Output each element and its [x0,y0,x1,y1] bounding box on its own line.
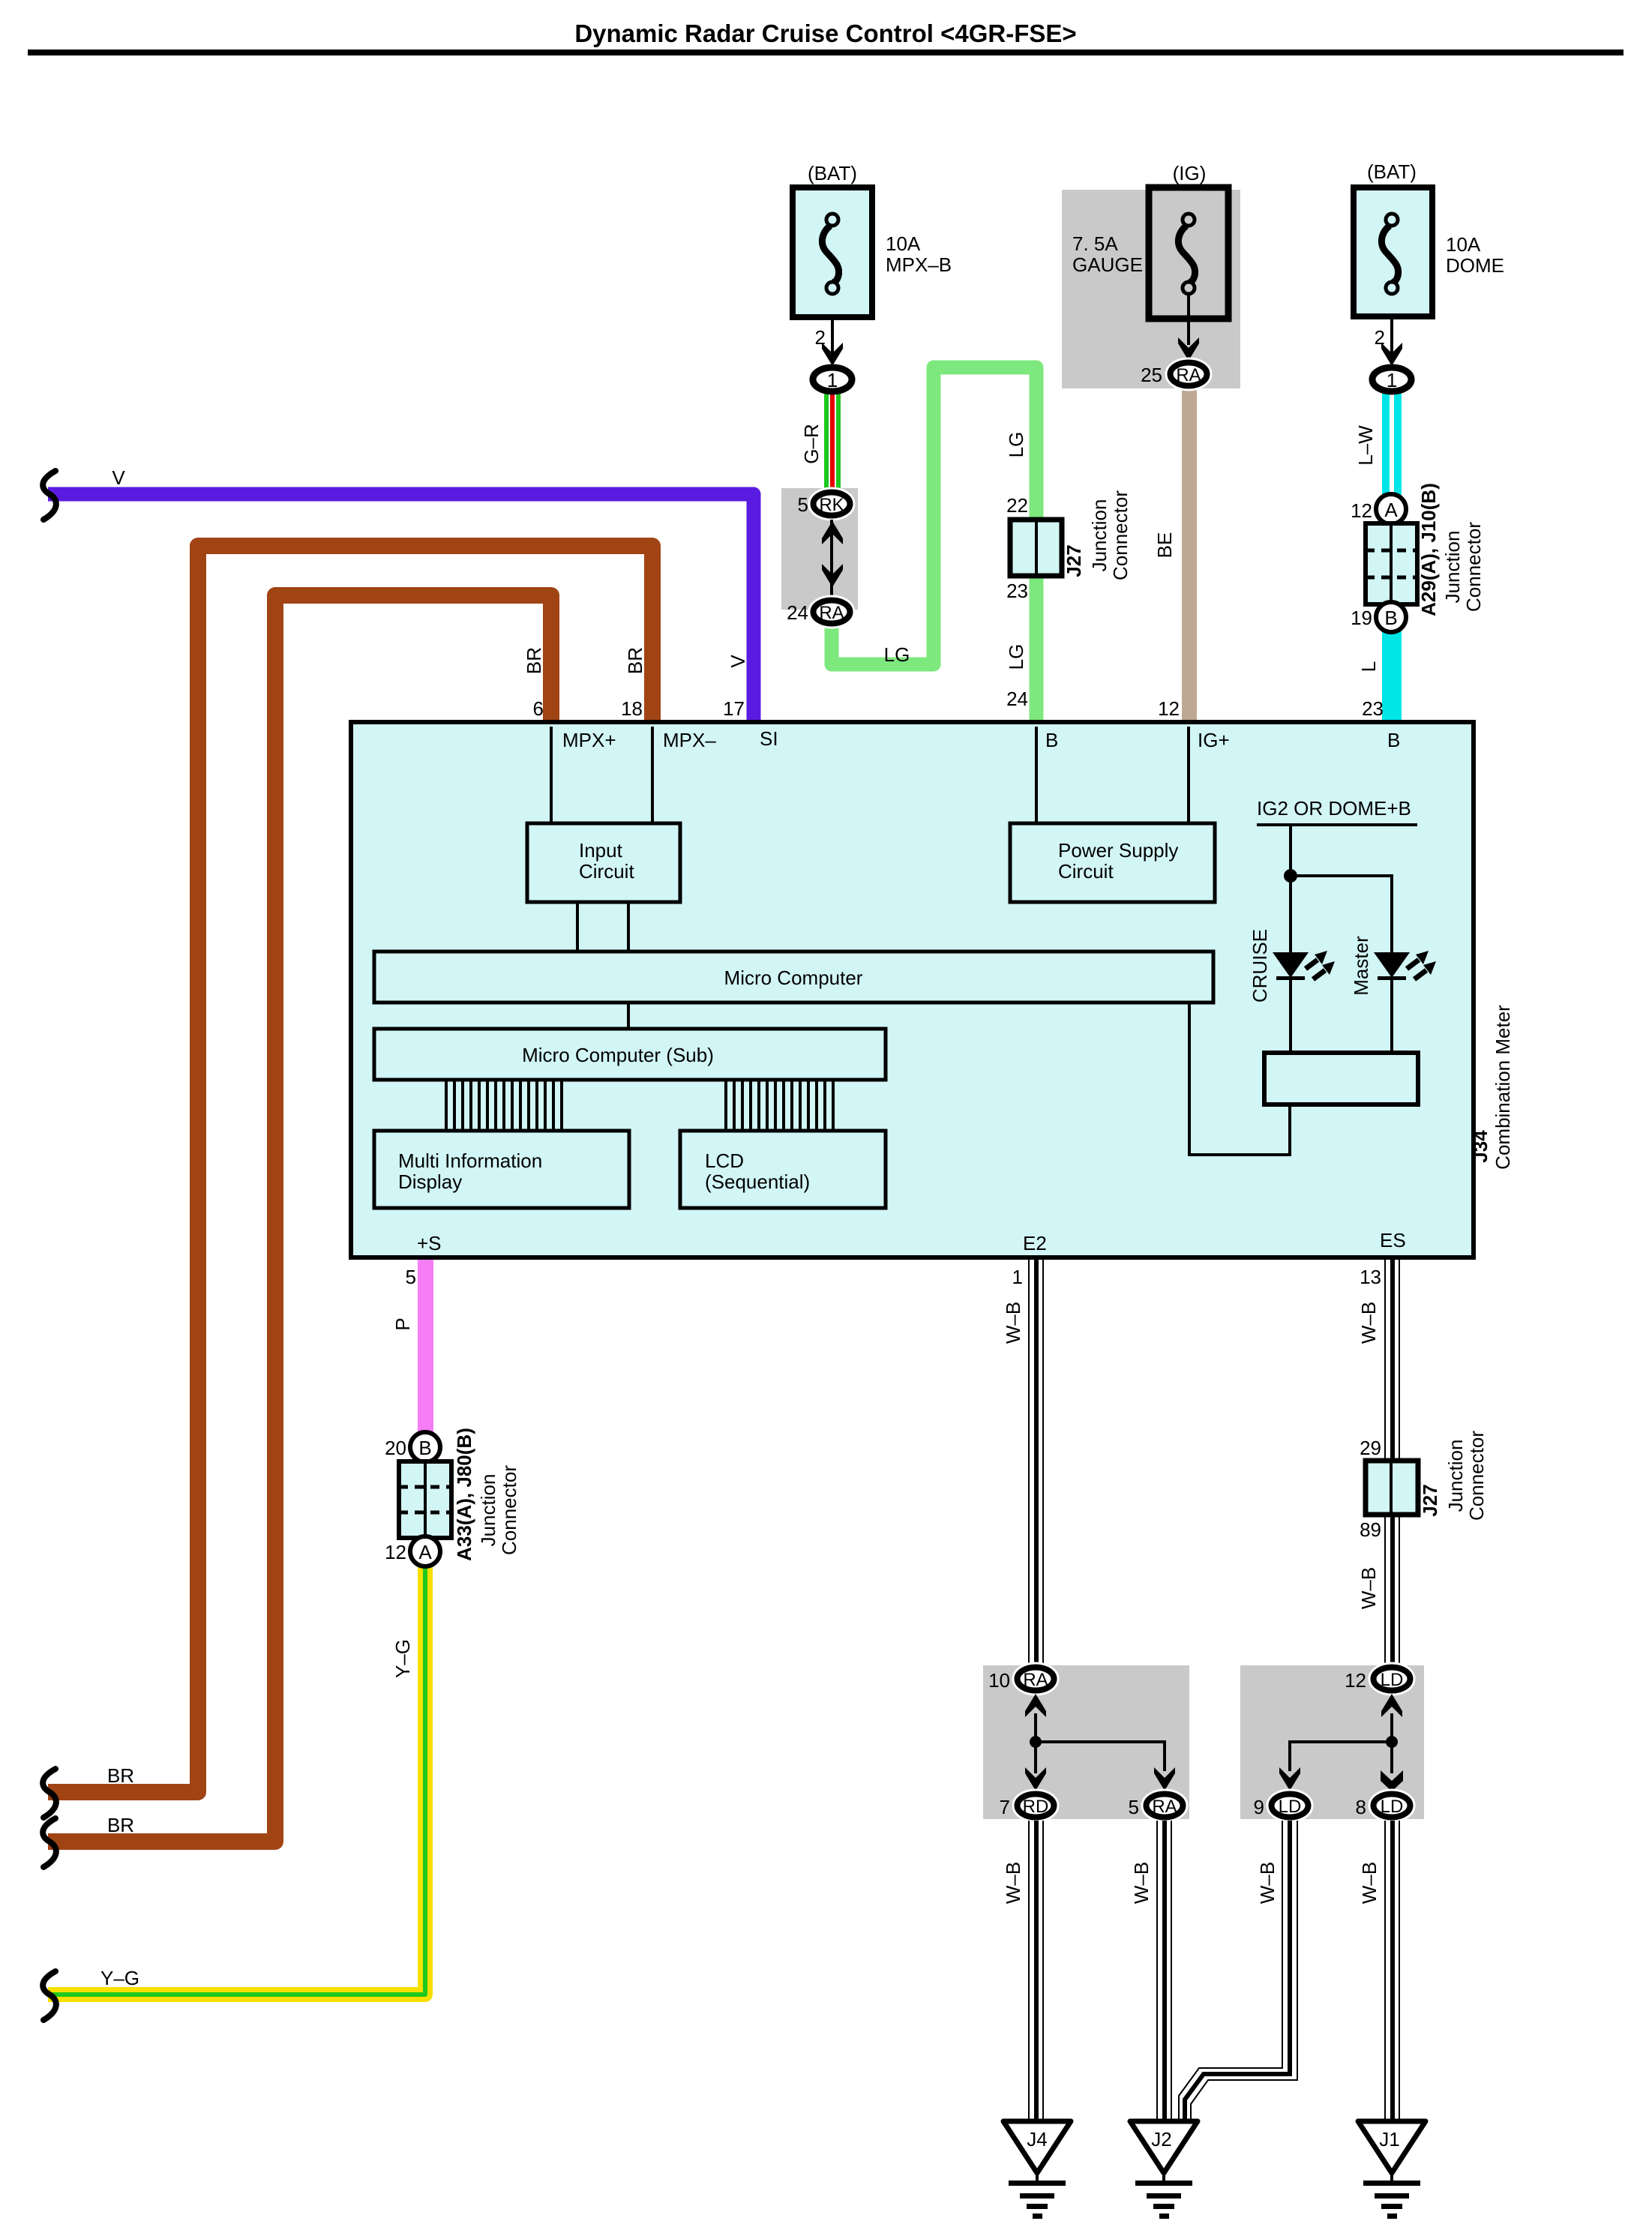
junction dot (right gray box) [1386,1736,1398,1748]
label LG (horizontal near bottom elbow) [884,643,910,666]
svg-text:8: 8 [1356,1796,1366,1818]
svg-text:18: 18 [621,697,643,720]
svg-text:5: 5 [798,493,808,516]
node IG2 OR DOME+B [1257,797,1417,826]
wire L-W (cyan with white stripe) fuse DOME to 12 A [1382,393,1402,498]
label W-B (rotated, LD9 wire) [1256,1862,1279,1904]
svg-text:SI: SI [760,727,778,750]
svg-text:29: 29 [1360,1437,1381,1459]
indicator block rectangle [1264,1053,1418,1105]
pin number 5 (RK) [798,493,808,516]
svg-text:Junction: Junction [1444,1440,1467,1512]
svg-text:10A: 10A [886,232,921,255]
svg-text:BR: BR [107,1764,134,1787]
svg-text:24: 24 [787,601,808,624]
svg-text:13: 13 [1360,1266,1381,1288]
fuse GAUGE element [1178,214,1195,294]
label W-B (rotated, ES wire upper) [1357,1302,1380,1344]
svg-text:W–B: W–B [1357,1302,1380,1344]
label LG (rotated, above J27) [1005,432,1027,458]
pin number 7 (RD) [1000,1796,1010,1818]
label W-B (rotated, J2 wire) [1130,1862,1153,1904]
wire fuse MPX-B to connector 1 [831,317,834,356]
wire BR outer (brown) break to meter pin 18 MPX- [48,546,652,1792]
pin name B (23) [1387,729,1400,751]
svg-text:BE: BE [1153,532,1176,559]
pin number 12 (LD) [1345,1669,1366,1692]
svg-text:MPX–B: MPX–B [886,253,952,276]
relay block shading (bottom right, 12LD/9LD/8LD) [1240,1665,1424,1819]
label W-B (rotated, J4 wire) [1002,1862,1024,1904]
arrow up into LD (12) [1381,1694,1402,1717]
power supply circuit box [1010,823,1215,902]
label BR (rotated, pin 18) [624,647,646,674]
label 13 (pin ES) [1360,1266,1381,1288]
svg-text:Circuit: Circuit [1058,860,1114,883]
svg-text:(Sequential): (Sequential) [705,1170,810,1193]
svg-text:Y–G: Y–G [391,1639,414,1678]
svg-text:(BAT): (BAT) [808,162,857,184]
svg-text:1: 1 [1012,1266,1023,1288]
svg-text:Combination Meter: Combination Meter [1492,1005,1514,1170]
svg-text:6: 6 [533,697,544,720]
relay block shading (bottom left, 10RA/7RD/5RA) [983,1665,1189,1819]
svg-text:7: 7 [1000,1796,1010,1818]
wire LG (light green) 24 RA loop to J27 to meter pin 24 B [832,367,1036,722]
arrow into connector RA (GAUGE) [1178,337,1199,361]
wire fuse GAUGE to connector RA [1187,292,1190,345]
svg-text:20: 20 [385,1437,406,1459]
svg-text:B: B [1384,607,1397,629]
svg-text:Connector: Connector [1109,490,1132,580]
arrow down into RD (7) [1025,1767,1046,1791]
wire IG2 bus down to CRUISE LED [1289,826,1292,952]
svg-text:W–B: W–B [1002,1862,1024,1904]
svg-text:RA: RA [819,603,844,623]
label 7.5A GAUGE [1072,232,1143,276]
micro computer (sub) bar [374,1029,886,1080]
LCD (sequential) box [680,1131,886,1208]
label L (rotated) [1357,661,1380,672]
junction connector A29(A) J10(B) circle B [1376,602,1406,632]
wire W-B meter pin 13 ES down through J27 to 12 LD [1384,1257,1400,1666]
svg-text:L: L [1357,661,1380,672]
fuse DOME element [1381,214,1398,294]
svg-text:W–B: W–B [1256,1862,1279,1904]
svg-text:Display: Display [398,1170,462,1193]
wire W-B meter pin 1 E2 down to 10 RA [1028,1257,1044,1666]
label Master (rotated) [1350,936,1372,996]
label A33(A), J80(B) Junction Connector (rotated) [453,1428,520,1561]
svg-text:12: 12 [1345,1669,1366,1692]
arrow down into LD (8) [1381,1770,1403,1791]
label BE (rotated) [1153,532,1176,559]
svg-text:DOME: DOME [1446,254,1504,277]
wire micro computer to indicator block [1189,1003,1290,1155]
junction connector A33(A) J80(B) circle B [410,1432,440,1462]
label (IG) above fuse GAUGE [1173,162,1207,184]
pin number 17 [723,697,745,720]
svg-text:Junction: Junction [477,1474,499,1547]
svg-text:RA: RA [1023,1670,1048,1690]
pin number 5 (+S) [406,1266,416,1288]
ribbon lines sub to multi information display [446,1080,562,1131]
svg-text:Connector: Connector [498,1465,520,1555]
label W-B (rotated, J1 wire) [1358,1862,1381,1904]
fuse MPX-B box [793,187,872,317]
pin name MPX+ [562,729,616,751]
svg-text:J27: J27 [1063,544,1085,577]
svg-text:Circuit: Circuit [579,860,634,883]
svg-text:(BAT): (BAT) [1367,160,1417,183]
svg-text:12: 12 [385,1541,406,1563]
connector circle 1 (DOME) [1372,367,1411,391]
svg-text:12: 12 [1351,499,1372,522]
svg-text:Connector: Connector [1465,1431,1488,1521]
svg-text:B: B [418,1437,431,1459]
label A29(A), J10(B) Junction Connector (rotated) [1417,483,1485,616]
double arrow RK to RA [822,520,843,596]
svg-text:W–B: W–B [1357,1567,1380,1609]
connector circle LD (8) [1374,1794,1411,1818]
pin name MPX- [663,729,716,751]
svg-text:(IG): (IG) [1173,162,1207,184]
wire BE (beige) 25 RA to meter pin 12 IG+ [1182,385,1197,722]
svg-text:P: P [391,1317,414,1330]
pin number 24 (RA) [787,601,808,624]
title [28,19,1624,55]
pin number 12 (A29 circle A) [1351,499,1372,522]
arrow down into LD (9) [1279,1767,1300,1791]
LED CRUISE [1273,951,1335,980]
label 23 (below J27) [1006,580,1028,602]
svg-text:5: 5 [406,1266,416,1288]
relay block shading (GAUGE fuse block) [1062,190,1240,388]
svg-text:V: V [112,466,125,489]
pin number 19 (A29 circle B) [1351,607,1372,629]
svg-text:23: 23 [1362,697,1384,720]
svg-text:LD: LD [1279,1797,1302,1817]
svg-text:Micro Computer: Micro Computer [724,967,863,989]
label 89 (below lower J27) [1360,1518,1381,1541]
label Y-G (horizontal at break) [100,1967,139,1989]
svg-text:RA: RA [1176,365,1201,385]
pin number 2 (fuse DOME) [1375,326,1385,349]
connector circle RA (25) [1171,363,1207,386]
pin name E2 [1023,1232,1047,1254]
stub wire pin 24 to power supply [1035,727,1038,823]
wire LD12 to junction dot and branches [1290,1713,1393,1773]
label Y-G (rotated) [391,1639,414,1678]
label 29 (above lower J27) [1360,1437,1381,1459]
label W-B (rotated, ES wire lower) [1357,1567,1380,1609]
multi information display box [374,1131,629,1208]
svg-text:A33(A), J80(B): A33(A), J80(B) [453,1428,475,1561]
label 22 (above J27) [1006,494,1028,517]
svg-text:BR: BR [624,647,646,674]
pin number 25 (GAUGE) [1141,364,1162,386]
svg-text:J1: J1 [1379,2128,1399,2151]
svg-text:B: B [1387,729,1400,751]
wires input circuit to micro computer [576,902,630,952]
svg-text:24: 24 [1006,688,1028,710]
wire BR inner (brown) break to meter pin 6 MPX+ [48,595,551,1842]
svg-text:25: 25 [1141,364,1162,386]
connector circle RD (7) [1018,1794,1054,1818]
svg-text:J2: J2 [1151,2128,1171,2151]
pin number 10 (RA) [988,1669,1010,1692]
break symbol on wire V [43,471,56,520]
svg-text:Multi Information: Multi Information [398,1149,542,1172]
svg-text:A29(A), J10(B): A29(A), J10(B) [1417,483,1440,616]
svg-text:RK: RK [819,495,844,515]
combination meter J34 outer box [351,722,1474,1257]
svg-text:Junction: Junction [1088,499,1111,572]
connector circle RA (10) [1018,1668,1054,1691]
wire fuse DOME to connector 1 [1390,316,1393,355]
wire W-B LD (8) to ground J1 [1384,1821,1400,2121]
pin number 5 (RA) [1129,1796,1139,1818]
pin name B (24) [1045,729,1058,751]
LED Master [1374,951,1436,980]
relay block shading (RK/RA connector block) [781,488,858,610]
svg-text:9: 9 [1254,1796,1264,1818]
label L-W (rotated) [1354,425,1377,466]
svg-text:L–W: L–W [1354,425,1377,466]
svg-text:RD: RD [1023,1797,1049,1817]
ground J2 [1130,2121,1198,2219]
arrow into connector 1 (DOME) [1381,343,1402,366]
connector circle LD (12) [1374,1668,1411,1691]
svg-text:BR: BR [523,647,545,674]
junction connector A29(A) J10(B) circle A [1376,494,1406,524]
svg-text:LG: LG [884,643,910,666]
label V (horizontal, at wire start) [112,466,125,489]
svg-text:LD: LD [1381,1797,1404,1817]
junction dot [1284,869,1297,883]
wire W-B RA (5) to ground J2 [1156,1821,1172,2121]
label CRUISE (rotated) [1249,929,1271,1003]
junction connector J27 (upper, LG wire) [1010,520,1062,576]
pin number 2 (fuse MPX-B) [815,326,826,349]
svg-text:12: 12 [1158,697,1180,720]
label BR (rotated, pin 6) [523,647,545,674]
junction connector A33(A) J80(B) box [399,1461,451,1538]
wire branch to Master LED [1291,876,1392,952]
label BR (horizontal, outer) [107,1764,134,1787]
svg-text:LCD: LCD [705,1149,744,1172]
pin number 12 [1158,697,1180,720]
svg-text:V: V [727,655,749,668]
svg-text:CRUISE: CRUISE [1249,929,1271,1003]
svg-text:Connector: Connector [1462,522,1485,612]
label J34 (rotated) [1469,1130,1492,1163]
svg-text:5: 5 [1129,1796,1139,1818]
break symbol on Y-G [43,1971,56,2020]
svg-text:RA: RA [1152,1797,1177,1817]
label BR (horizontal, inner) [107,1814,134,1836]
svg-text:J27: J27 [1419,1484,1441,1516]
ground J1 [1358,2121,1426,2219]
svg-text:IG+: IG+ [1198,729,1230,751]
svg-text:LG: LG [1005,432,1027,458]
pin name SI [760,727,778,750]
svg-text:10: 10 [988,1669,1010,1692]
label P (rotated) [391,1317,414,1330]
svg-text:Master: Master [1350,936,1372,996]
label LG (rotated, below J27) [1005,644,1027,670]
fuse GAUGE box [1149,187,1228,319]
svg-text:1: 1 [1387,369,1397,391]
pin name ES [1380,1229,1406,1251]
ribbon lines sub to LCD [726,1080,833,1131]
stub wire pin 12 to power supply [1187,727,1190,823]
svg-text:Input: Input [579,839,623,862]
wire W-B LD (9) elbow joining ground J2 [1179,1821,1297,2121]
svg-text:B: B [1045,729,1058,751]
fuse MPX-B element [822,214,838,294]
ground J4 [1003,2121,1071,2219]
label W-B (rotated, E2 wire) [1002,1302,1024,1344]
svg-text:A: A [1384,499,1398,521]
junction connector A33(A) J80(B) circle A [410,1536,440,1566]
wire W-B RD (7) to ground J4 [1028,1821,1044,2121]
svg-text:IG2 OR DOME+B: IG2 OR DOME+B [1257,797,1411,820]
svg-text:89: 89 [1360,1518,1381,1541]
label Combination Meter (rotated) [1492,1005,1514,1170]
svg-text:Micro Computer (Sub): Micro Computer (Sub) [522,1044,714,1066]
connector circle LD (9) [1272,1794,1309,1818]
label V (rotated, at pin 17) [727,655,749,668]
pin number 6 [533,697,544,720]
svg-text:G–R: G–R [800,424,823,463]
svg-text:19: 19 [1351,607,1372,629]
wire Y-G (yellow with green stripe) 12 A to break [48,1564,425,1995]
svg-text:J34: J34 [1469,1130,1492,1163]
svg-text:10A: 10A [1446,233,1481,256]
svg-text:BR: BR [107,1814,134,1836]
svg-text:Dynamic Radar Cruise Control <: Dynamic Radar Cruise Control <4GR-FSE> [574,19,1076,47]
label (BAT) above fuse DOME [1367,160,1417,183]
input circuit box [527,823,680,902]
label (BAT) above fuse MPX-B [808,162,857,184]
label J27 Junction Connector (upper, rotated) [1063,490,1132,580]
svg-text:22: 22 [1006,494,1028,517]
wire CRUISE LED to indicator block [1289,978,1292,1053]
arrow into connector 1 (MPX-B) [822,343,843,366]
svg-text:J4: J4 [1027,2128,1047,2151]
svg-text:Y–G: Y–G [100,1967,139,1989]
wire L (cyan) 19 B to meter pin 23 B [1382,630,1402,722]
wire Master LED to indicator block [1390,978,1393,1053]
svg-text:MPX–: MPX– [663,729,716,751]
svg-text:LD: LD [1381,1670,1404,1690]
junction connector J27 (lower, W-B wire) [1366,1461,1418,1515]
arrow down into RA (5) [1154,1767,1175,1791]
label 10A MPX-B [886,232,952,276]
svg-text:W–B: W–B [1358,1862,1381,1904]
svg-text:Power Supply: Power Supply [1058,839,1178,862]
pin number 12 (A33 circle A) [385,1541,406,1563]
label J27 Junction Connector (lower, rotated) [1419,1431,1488,1521]
stub wire pin 18 to input circuit [651,727,654,823]
svg-text:ES: ES [1380,1229,1406,1251]
wire RA10 to junction dot and branches [1034,1713,1165,1773]
svg-text:7. 5A: 7. 5A [1072,232,1118,255]
pin number 20 (A33 circle B) [385,1437,406,1459]
svg-text:23: 23 [1006,580,1028,602]
svg-text:W–B: W–B [1130,1862,1153,1904]
micro computer bar [374,952,1213,1003]
connector circle RK [814,493,850,516]
connector circle RA (5) [1147,1794,1183,1818]
pin number 18 [621,697,643,720]
svg-text:A: A [418,1541,432,1563]
svg-text:LG: LG [1005,644,1027,670]
svg-text:17: 17 [723,697,745,720]
junction dot (left gray box) [1030,1736,1042,1748]
pin number 24 [1006,688,1028,710]
connector circle RA (24) [814,601,850,624]
label G-R (rotated) [800,424,823,463]
svg-text:GAUGE: GAUGE [1072,253,1143,276]
junction connector A29(A) J10(B) box [1366,523,1417,604]
pin number 8 (LD) [1356,1796,1366,1818]
svg-text:+S: +S [417,1232,442,1254]
pin number 9 (LD) [1254,1796,1264,1818]
wire G-R (green with red stripe) fuse MPX-B to 5 RK [824,393,841,490]
wire micro computer to micro computer (sub) [627,1003,630,1029]
break symbol on inner BR [43,1818,56,1867]
pin number 23 [1362,697,1384,720]
svg-text:MPX+: MPX+ [562,729,616,751]
pin name +S [417,1232,442,1254]
svg-text:1: 1 [827,369,838,391]
label 1 (pin E2) [1012,1266,1023,1288]
label 10A DOME [1446,233,1504,277]
arrow up into RA (10) [1025,1694,1046,1717]
wire P (pink) meter pin 5 +S to 20 B [418,1257,433,1435]
svg-text:W–B: W–B [1002,1302,1024,1344]
svg-text:Junction: Junction [1441,531,1464,604]
break symbol on outer BR [43,1769,56,1818]
connector circle 1 (MPX-B) [813,367,852,391]
fuse DOME box [1354,187,1432,316]
stub wire pin 6 to input circuit [550,727,553,823]
svg-text:E2: E2 [1023,1232,1047,1254]
pin name IG+ [1198,729,1230,751]
wire V (violet) from break to meter pin 17 SI [48,494,754,722]
